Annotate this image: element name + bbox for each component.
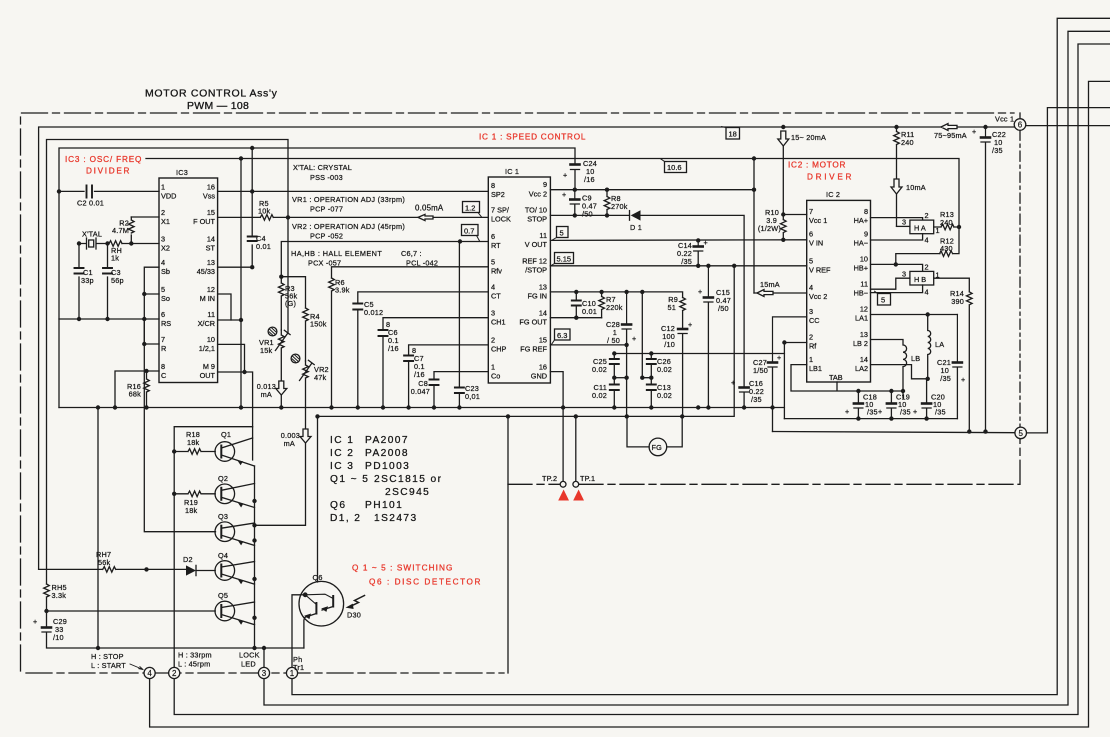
svg-text:+: + bbox=[562, 190, 566, 199]
svg-text:0.02: 0.02 bbox=[657, 365, 672, 374]
svg-text:TO/ 10: TO/ 10 bbox=[525, 206, 547, 215]
svg-text:X'TAL: X'TAL bbox=[82, 230, 102, 239]
svg-text:Q6 : DISC DETECTOR: Q6 : DISC DETECTOR bbox=[369, 578, 481, 587]
svg-text:/35: /35 bbox=[681, 257, 692, 266]
wire M OUT pin9 to Q1 collector bbox=[218, 372, 253, 460]
wire 45/33 pin13 bbox=[218, 266, 253, 268]
screw adjust mark VR1 bbox=[268, 327, 277, 336]
svg-text:5.15: 5.15 bbox=[557, 255, 572, 264]
phototransistor Q6 bbox=[292, 573, 344, 667]
svg-text:7 SP/: 7 SP/ bbox=[491, 206, 510, 215]
svg-text:V OUT: V OUT bbox=[525, 240, 548, 249]
svg-text:Q1 ~ 5: Q1 ~ 5 bbox=[330, 474, 369, 485]
svg-text:LOCK: LOCK bbox=[239, 651, 260, 660]
resistor R14 390 bbox=[934, 278, 972, 431]
svg-text:PH101: PH101 bbox=[365, 500, 403, 511]
wire X1 pin2 bbox=[131, 216, 159, 218]
svg-text:TAB: TAB bbox=[829, 373, 843, 382]
wire frame4 left vertical and C24 feed bbox=[59, 148, 575, 408]
svg-text:15: 15 bbox=[539, 336, 547, 345]
wire R pin7 bbox=[144, 320, 159, 344]
wire Q5 base line bbox=[47, 610, 216, 612]
diode D2 bbox=[183, 555, 215, 576]
svg-text:IC3 : OSC/ FREQ: IC3 : OSC/ FREQ bbox=[65, 155, 142, 164]
svg-text:3: 3 bbox=[262, 669, 267, 678]
svg-text:12: 12 bbox=[207, 285, 215, 294]
IC2 box PA2008 bbox=[807, 190, 871, 382]
svg-text:D2: D2 bbox=[183, 555, 193, 564]
svg-text:1k: 1k bbox=[111, 254, 119, 263]
svg-text:F OUT: F OUT bbox=[193, 217, 215, 226]
svg-text:4: 4 bbox=[925, 236, 929, 245]
svg-text:IC2 : MOTOR: IC2 : MOTOR bbox=[788, 161, 846, 170]
svg-text:Q1: Q1 bbox=[221, 430, 231, 439]
capacitor C5 0.012 bbox=[353, 300, 383, 408]
current arrow 0.05mA bbox=[415, 204, 444, 221]
svg-text:IC3: IC3 bbox=[176, 168, 188, 177]
svg-text:0.02: 0.02 bbox=[657, 391, 672, 400]
resistor RH 1k bbox=[109, 241, 122, 263]
svg-text:Vcc 2: Vcc 2 bbox=[809, 292, 827, 301]
svg-text:47k: 47k bbox=[314, 373, 327, 382]
svg-text:PD1003: PD1003 bbox=[365, 461, 410, 472]
svg-text:Tr1: Tr1 bbox=[293, 663, 304, 672]
wire line5 bus (Vcc2 rail) bbox=[146, 159, 959, 228]
potentiometer VR1 15k bbox=[259, 330, 290, 381]
capacitor C16 0.22/35 bbox=[731, 378, 764, 408]
wire right harness from circled 1 bbox=[292, 18, 1110, 694]
svg-text:DIVIDER: DIVIDER bbox=[86, 167, 130, 176]
wire RT line to R3 R4 bbox=[281, 242, 488, 309]
svg-text:13: 13 bbox=[207, 258, 215, 267]
svg-text:+: + bbox=[972, 127, 976, 136]
capacitor C23 0.01 bbox=[455, 242, 480, 408]
svg-text:1: 1 bbox=[161, 183, 165, 192]
light arrow D30 bbox=[346, 596, 365, 620]
svg-text:11: 11 bbox=[539, 231, 547, 240]
svg-text:CH1: CH1 bbox=[491, 318, 506, 327]
svg-text:L : 45rpm: L : 45rpm bbox=[178, 660, 210, 669]
svg-text:/16: /16 bbox=[584, 175, 595, 184]
svg-text:14: 14 bbox=[860, 355, 868, 364]
svg-text:Sb: Sb bbox=[161, 267, 170, 276]
svg-text:HB−: HB− bbox=[854, 289, 868, 298]
svg-text:PCX -057: PCX -057 bbox=[308, 259, 341, 268]
transistor Q4 bbox=[215, 551, 255, 584]
wire dash-dot vcc1 drop to circled 5 bbox=[1019, 130, 1021, 427]
svg-text:16: 16 bbox=[207, 183, 215, 192]
svg-text:X1: X1 bbox=[161, 217, 170, 226]
svg-text:5: 5 bbox=[881, 296, 885, 305]
capacitor C7 bbox=[404, 346, 425, 408]
terminal circled 4 bbox=[91, 652, 155, 679]
svg-text:18k: 18k bbox=[187, 438, 200, 447]
svg-text:R: R bbox=[161, 344, 166, 353]
svg-text:STOP: STOP bbox=[527, 215, 547, 224]
svg-text:5: 5 bbox=[809, 257, 813, 266]
hall element HA bbox=[871, 211, 940, 245]
svg-text:4: 4 bbox=[147, 669, 152, 678]
svg-text:LB1: LB1 bbox=[809, 364, 822, 373]
svg-text:OUT: OUT bbox=[200, 371, 216, 380]
svg-text:LOCK: LOCK bbox=[491, 215, 511, 224]
svg-text:+: + bbox=[632, 334, 636, 343]
wire top line C25 C26 to Rf bbox=[614, 343, 784, 354]
resistor RH7 56k bbox=[39, 550, 186, 572]
svg-text:240: 240 bbox=[940, 218, 953, 227]
resistor R2 bbox=[112, 217, 134, 244]
svg-text:PCL -042: PCL -042 bbox=[406, 259, 438, 268]
svg-text:IC 1: IC 1 bbox=[330, 435, 354, 446]
svg-text:4: 4 bbox=[161, 258, 165, 267]
svg-text:TP.2: TP.2 bbox=[542, 474, 557, 483]
svg-text:15~ 20mA: 15~ 20mA bbox=[791, 133, 826, 142]
svg-text:7: 7 bbox=[161, 335, 165, 344]
wire right harness from circled 3 bbox=[264, 31, 1110, 705]
wire TP1 riser bbox=[575, 416, 577, 481]
svg-text:14: 14 bbox=[539, 309, 547, 318]
wire Q3 base from IC3 pins line bbox=[144, 320, 215, 532]
svg-text:Q3: Q3 bbox=[218, 512, 228, 521]
capacitor C21 10/35 bbox=[937, 315, 965, 419]
current arrow 0.013mA bbox=[257, 381, 287, 408]
wire vcc1 top bus bbox=[39, 127, 1015, 569]
wire HB+ pin10 bbox=[871, 263, 896, 265]
svg-text:So: So bbox=[161, 294, 170, 303]
capacitor C1 bbox=[75, 244, 94, 320]
svg-text:15: 15 bbox=[207, 208, 215, 217]
wire FG IN drop to C26 mid bbox=[642, 292, 651, 378]
svg-text:6: 6 bbox=[1018, 121, 1023, 130]
svg-text:0,01: 0,01 bbox=[465, 392, 480, 401]
svg-text:IC 3: IC 3 bbox=[330, 461, 354, 472]
svg-text:14: 14 bbox=[207, 235, 215, 244]
svg-text:10: 10 bbox=[207, 335, 215, 344]
transistor Q3 bbox=[215, 512, 255, 545]
value tag 1.2 bbox=[463, 202, 482, 217]
capacitor C27 1/50 bbox=[753, 317, 807, 432]
svg-text:11: 11 bbox=[207, 310, 215, 319]
svg-text:+: + bbox=[698, 287, 702, 296]
svg-text:3: 3 bbox=[809, 307, 813, 316]
svg-text:/50: /50 bbox=[718, 304, 729, 313]
svg-text:8: 8 bbox=[161, 362, 165, 371]
svg-text:0.012: 0.012 bbox=[364, 308, 383, 317]
svg-text:Q4: Q4 bbox=[218, 551, 228, 560]
wire F OUT to SP/LOCK bbox=[218, 216, 489, 218]
capacitor C11 0.02 bbox=[592, 383, 619, 408]
svg-text:LB 2: LB 2 bbox=[853, 339, 868, 348]
FG generator circle bbox=[627, 416, 682, 455]
svg-text:REF 12: REF 12 bbox=[522, 257, 547, 266]
svg-text:Q6: Q6 bbox=[330, 500, 346, 511]
capacitor C19 10/35 bbox=[878, 391, 911, 419]
svg-text:RS: RS bbox=[161, 319, 171, 328]
svg-text:1/2,1: 1/2,1 bbox=[199, 344, 215, 353]
red triangle marker TP1 bbox=[573, 490, 584, 501]
crystal X'TAL bbox=[82, 230, 102, 250]
svg-text:D 1: D 1 bbox=[630, 223, 642, 232]
svg-text:45/33: 45/33 bbox=[197, 267, 215, 276]
svg-text:HA+: HA+ bbox=[854, 216, 868, 225]
svg-text:Q5: Q5 bbox=[218, 591, 228, 600]
terminal circled 1 bbox=[286, 655, 304, 679]
wire TO/10 STOP line bbox=[550, 215, 744, 386]
capacitor C25 0.02 bbox=[592, 354, 619, 384]
svg-text:/ 50: / 50 bbox=[607, 336, 620, 345]
svg-text:Vcc 1: Vcc 1 bbox=[809, 216, 827, 225]
svg-text:13: 13 bbox=[860, 330, 868, 339]
wire FG IN to R9 bbox=[550, 292, 682, 298]
svg-text:68k: 68k bbox=[129, 390, 142, 399]
resistor R13 240 bbox=[934, 210, 959, 230]
wire Sb So pins bbox=[144, 267, 159, 320]
svg-text:Rf: Rf bbox=[809, 342, 817, 351]
label IC3 OSC/FREQ DIVIDER (red) bbox=[65, 155, 142, 176]
svg-text:/35: /35 bbox=[940, 374, 951, 383]
svg-text:4: 4 bbox=[491, 283, 495, 292]
parts list text bbox=[330, 435, 442, 524]
svg-text:3: 3 bbox=[161, 235, 165, 244]
svg-text:LED: LED bbox=[241, 660, 256, 669]
inductor LB bbox=[871, 340, 921, 399]
svg-text:2: 2 bbox=[161, 208, 165, 217]
svg-text:3.9k: 3.9k bbox=[335, 286, 350, 295]
svg-text:Vss: Vss bbox=[203, 192, 216, 201]
svg-text:2: 2 bbox=[925, 211, 929, 220]
svg-text:VR2 : OPERATION ADJ (45rpm): VR2 : OPERATION ADJ (45rpm) bbox=[292, 222, 405, 231]
svg-text:15k: 15k bbox=[260, 346, 273, 355]
label Q1-5 SWITCHING Q6 DISC DETECTOR (red) bbox=[352, 564, 481, 587]
svg-text:PWM — 108: PWM — 108 bbox=[187, 100, 250, 112]
resistor R7 220k bbox=[599, 292, 623, 318]
svg-text:56k: 56k bbox=[98, 558, 111, 567]
svg-text:IC 2: IC 2 bbox=[330, 448, 354, 459]
svg-text:IC 2: IC 2 bbox=[826, 190, 840, 199]
svg-text:11: 11 bbox=[860, 280, 868, 289]
wire bus to C29 return x98 bbox=[97, 408, 99, 649]
svg-text:IC 1 : SPEED CONTROL: IC 1 : SPEED CONTROL bbox=[479, 133, 586, 142]
potentiometer VR2 47k bbox=[300, 360, 329, 429]
svg-text:/10: /10 bbox=[53, 633, 64, 642]
note VR1 OPERATION ADJ 33rpm bbox=[292, 195, 405, 214]
svg-text:75~95mA: 75~95mA bbox=[934, 131, 967, 140]
svg-text:/16: /16 bbox=[414, 370, 425, 379]
svg-text:(1/2W): (1/2W) bbox=[758, 224, 781, 233]
wire lower sense line y416 bbox=[319, 266, 735, 417]
svg-text:H A: H A bbox=[914, 224, 926, 233]
capacitor C13 0.02 bbox=[647, 383, 672, 408]
capacitor C3 bbox=[103, 244, 124, 320]
svg-text:+: + bbox=[731, 378, 735, 387]
current arrow 75-95mA bbox=[934, 124, 967, 141]
value tag 5 bbox=[553, 227, 569, 240]
capacitor C28 1/50 bbox=[606, 292, 636, 417]
svg-text:0.02: 0.02 bbox=[592, 391, 607, 400]
svg-text:16: 16 bbox=[539, 363, 547, 372]
resistor RH5 3.3k bbox=[44, 583, 67, 626]
value tag 5.15 bbox=[552, 253, 574, 266]
wire dash-dot test point line TP bbox=[508, 439, 1020, 485]
test point circle TP1 bbox=[573, 474, 595, 487]
svg-text:VR1 : OPERATION ADJ (33rpm): VR1 : OPERATION ADJ (33rpm) bbox=[292, 195, 405, 204]
svg-text:0.01: 0.01 bbox=[256, 242, 271, 251]
svg-text:V REF: V REF bbox=[809, 266, 831, 275]
resistor R10 3.9 bbox=[758, 146, 807, 240]
svg-text:mA: mA bbox=[284, 439, 295, 448]
svg-text:6.3: 6.3 bbox=[557, 331, 567, 340]
svg-text:Q2: Q2 bbox=[218, 474, 228, 483]
wire LA2 pin14 bbox=[871, 365, 928, 379]
svg-text:FG OUT: FG OUT bbox=[519, 318, 547, 327]
svg-text:FG IN: FG IN bbox=[528, 292, 547, 301]
svg-text:MOTOR CONTROL Ass'y: MOTOR CONTROL Ass'y bbox=[145, 88, 278, 100]
wire right harness from circled 2 bbox=[174, 44, 1110, 715]
svg-text:5: 5 bbox=[1018, 429, 1023, 438]
capacitor C26 0.02 bbox=[647, 354, 672, 384]
svg-text:LB: LB bbox=[911, 354, 920, 363]
wire X/CR pin11 riser bbox=[218, 159, 241, 408]
wire collector emitter bus bbox=[254, 466, 256, 648]
svg-text:1: 1 bbox=[809, 355, 813, 364]
capacitor C6 bbox=[379, 320, 399, 408]
svg-text:IC 1: IC 1 bbox=[505, 167, 519, 176]
svg-text:C2 0.01: C2 0.01 bbox=[77, 199, 104, 208]
svg-text:8: 8 bbox=[491, 181, 495, 190]
svg-text:Co: Co bbox=[491, 372, 500, 381]
wire LA1 pin12 bbox=[871, 314, 958, 316]
svg-text:LA: LA bbox=[935, 340, 944, 349]
svg-text:DRIVER: DRIVER bbox=[807, 173, 852, 182]
note VR2 OPERATION ADJ 45rpm bbox=[292, 222, 405, 241]
resistor R9 51 bbox=[667, 295, 685, 328]
resistor R8 270k bbox=[604, 190, 628, 216]
svg-text:13: 13 bbox=[539, 283, 547, 292]
terminal circled 5 bbox=[1015, 427, 1027, 439]
svg-text:2SC1815 or: 2SC1815 or bbox=[374, 474, 442, 485]
svg-text:Vcc 2: Vcc 2 bbox=[529, 190, 547, 199]
svg-text:FG REF: FG REF bbox=[520, 345, 547, 354]
value tag 6.3 bbox=[552, 329, 571, 344]
wire Vss to IC1 SP2 bbox=[218, 190, 489, 192]
capacitor C12 100/10 bbox=[661, 320, 692, 416]
svg-text:+: + bbox=[777, 353, 781, 362]
svg-text:12: 12 bbox=[860, 305, 868, 314]
wire V OUT to VIN bbox=[550, 239, 806, 242]
svg-text:V IN: V IN bbox=[809, 239, 823, 248]
svg-text:9: 9 bbox=[543, 180, 547, 189]
svg-text:VDD: VDD bbox=[161, 192, 176, 201]
value tag 0.7 bbox=[462, 225, 480, 241]
capacitor C2 bbox=[77, 186, 104, 208]
wire HA+ pin8 to HA bbox=[871, 218, 923, 221]
svg-text:15mA: 15mA bbox=[760, 280, 780, 289]
svg-text:C: C bbox=[161, 371, 166, 380]
svg-text:SP2: SP2 bbox=[491, 190, 505, 199]
svg-text:1.2: 1.2 bbox=[465, 204, 475, 213]
svg-text:/10: /10 bbox=[664, 340, 675, 349]
svg-text:C6,7 :: C6,7 : bbox=[401, 249, 422, 258]
svg-text:H : STOP: H : STOP bbox=[91, 652, 124, 661]
junction dots bottom area bbox=[44, 405, 510, 650]
svg-text:/35: /35 bbox=[867, 408, 878, 417]
svg-text:6: 6 bbox=[491, 232, 495, 241]
capacitor C22 10/35 bbox=[972, 127, 1006, 432]
svg-text:PSS -003: PSS -003 bbox=[310, 173, 343, 182]
svg-text:RT: RT bbox=[491, 241, 501, 250]
svg-text:240: 240 bbox=[901, 138, 914, 147]
svg-text:/35: /35 bbox=[992, 146, 1003, 155]
svg-text:4.7M: 4.7M bbox=[112, 226, 129, 235]
resistor R16 68k bbox=[127, 371, 149, 408]
svg-text:+: + bbox=[563, 171, 567, 180]
svg-text:3: 3 bbox=[491, 309, 495, 318]
current arrow 0.003mA bbox=[255, 429, 312, 525]
svg-text:2: 2 bbox=[491, 336, 495, 345]
capacitor C18 10/35 bbox=[845, 391, 878, 419]
resistor R6 3.9k bbox=[329, 278, 350, 408]
capacitor C4 bbox=[248, 148, 271, 267]
svg-text:56p: 56p bbox=[111, 276, 124, 285]
svg-text:X/CR: X/CR bbox=[198, 319, 215, 328]
wire C25 C11 mid branch bbox=[614, 377, 626, 379]
svg-text:D30: D30 bbox=[347, 611, 361, 620]
svg-text:+: + bbox=[961, 375, 965, 384]
svg-text:430: 430 bbox=[940, 244, 953, 253]
hall element HB bbox=[871, 263, 940, 297]
svg-text:GND: GND bbox=[531, 372, 547, 381]
wire frame3 / VR feed line bbox=[47, 140, 289, 585]
wire circled5 left line bbox=[773, 432, 1016, 433]
svg-text:+: + bbox=[33, 617, 37, 626]
svg-text:3: 3 bbox=[902, 218, 906, 227]
svg-text:/STOP: /STOP bbox=[525, 266, 547, 275]
IC1 box PA2007 bbox=[488, 167, 550, 383]
svg-text:PCP -077: PCP -077 bbox=[310, 205, 343, 214]
svg-text:5: 5 bbox=[161, 285, 165, 294]
capacitor C15 0.47/50 bbox=[698, 266, 731, 408]
capacitor C14 0.22/35 bbox=[677, 238, 708, 266]
svg-text:+: + bbox=[704, 238, 708, 247]
svg-text:H B: H B bbox=[914, 275, 926, 284]
svg-text:H : 33rpm: H : 33rpm bbox=[178, 651, 212, 660]
wire C pin8 bbox=[115, 371, 159, 408]
svg-text:PCP -052: PCP -052 bbox=[310, 232, 343, 241]
svg-text:5: 5 bbox=[491, 258, 495, 267]
svg-text:0.047: 0.047 bbox=[411, 387, 430, 396]
wire LOCK LED riser bbox=[263, 648, 265, 667]
svg-text:L : START: L : START bbox=[91, 661, 126, 670]
current arrow 15-20mA bbox=[778, 131, 826, 146]
test point circle TP2 bbox=[542, 474, 566, 487]
wire cap bottoms line bbox=[784, 418, 957, 420]
svg-text:ST: ST bbox=[206, 244, 216, 253]
svg-text:390: 390 bbox=[951, 297, 964, 306]
svg-text:LA2: LA2 bbox=[855, 364, 868, 373]
svg-text:/35: /35 bbox=[751, 395, 762, 404]
terminal Vcc1 circled 6 bbox=[995, 115, 1026, 131]
capacitor C9 (polarized) bbox=[562, 190, 597, 219]
label IC2 MOTOR DRIVER (red) bbox=[788, 161, 852, 182]
resistor R5 10k bbox=[258, 199, 273, 220]
wire 1/2,1 pin10 bbox=[218, 344, 245, 372]
resistor R18 18k bbox=[174, 430, 215, 454]
svg-text:51: 51 bbox=[667, 303, 676, 312]
screw adjust mark VR2 bbox=[291, 354, 300, 363]
wire circled5 to right edge bbox=[1026, 108, 1110, 433]
resistor R3 56k bbox=[278, 277, 297, 330]
svg-text:1S2473: 1S2473 bbox=[374, 513, 418, 524]
